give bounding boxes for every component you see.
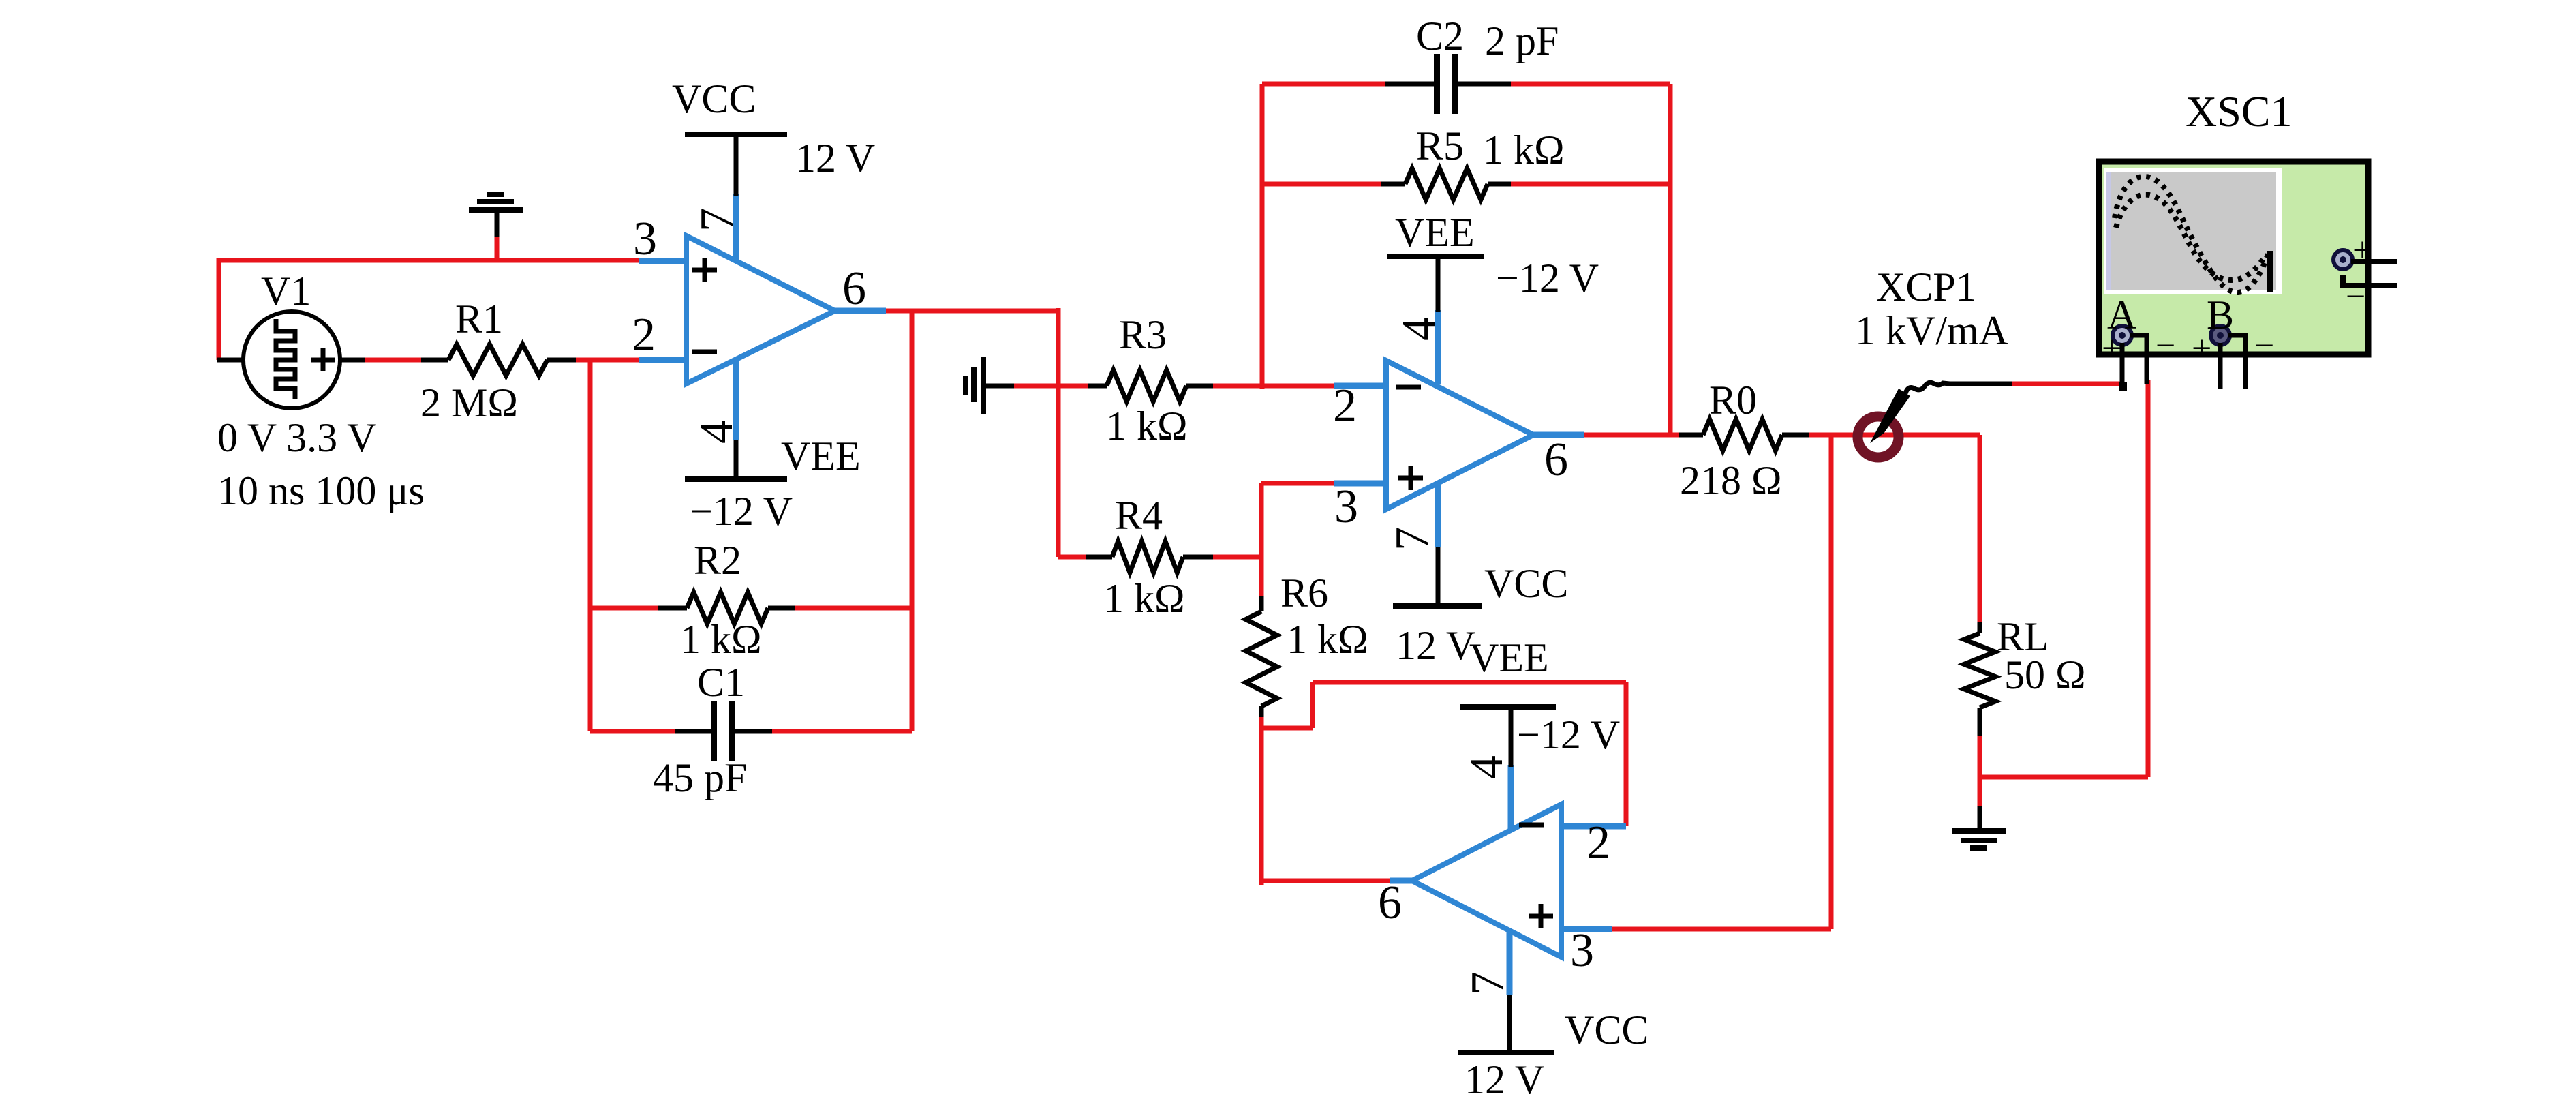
U3 pin 3 label: [1570, 924, 1594, 977]
label R2 value: [680, 617, 762, 662]
svg-text:1 kΩ: 1 kΩ: [1106, 404, 1188, 449]
svg-text:1 kΩ: 1 kΩ: [680, 617, 762, 662]
resistor R2: [658, 592, 795, 624]
U2 pin 6 wire: [1533, 432, 1584, 438]
wire RL top: [1978, 435, 1982, 622]
op-amp U1: [686, 236, 835, 384]
power VCC U2: [1393, 547, 1482, 606]
svg-text:2 pF: 2 pF: [1485, 18, 1559, 63]
U2 pin 6 label: [1544, 434, 1568, 486]
wire R4 to node3: [1213, 555, 1261, 560]
current probe XCP1 clamp: [1858, 382, 1950, 457]
label B minus: [2254, 327, 2274, 365]
svg-text:2: 2: [1333, 380, 1357, 432]
label R0 value: [1680, 458, 1782, 503]
ground GND1 (top left): [469, 194, 523, 260]
label R3 value: [1106, 404, 1188, 449]
op-amp U2: [1386, 361, 1533, 509]
label R1 value: [420, 380, 518, 425]
wire R6 bottom vertical: [1259, 717, 1264, 885]
svg-text:6: 6: [1544, 434, 1568, 486]
svg-text:VCC: VCC: [672, 76, 756, 121]
U1 pin 7 label: [691, 208, 743, 232]
label R1: [455, 297, 503, 342]
wire R0 node down vertical: [1829, 437, 1834, 929]
label VEE U1 value: [690, 489, 793, 534]
label VCC U1 value: [795, 136, 875, 181]
label C1: [697, 660, 745, 705]
label VEE U1: [781, 434, 861, 479]
svg-text:−: −: [2346, 277, 2365, 316]
label VEE U3 value: [1517, 712, 1620, 757]
wire C2R5 left vertical: [1260, 84, 1265, 389]
op-amp U3: [1412, 804, 1561, 957]
svg-text:VCC: VCC: [1484, 561, 1568, 606]
wire net1 left vertical: [217, 258, 221, 360]
label V1 value line1: [217, 415, 376, 460]
label A minus: [2156, 327, 2175, 365]
U2 pin 4 label: [1393, 317, 1445, 341]
wire R5 left: [1262, 182, 1381, 187]
label VCC U1: [672, 76, 756, 121]
wire R3 to U2 pin2: [1213, 384, 1334, 389]
svg-text:−: −: [2254, 327, 2274, 365]
svg-text:0 V 3.3 V: 0 V 3.3 V: [217, 415, 376, 460]
label A plus: [2102, 329, 2121, 368]
label R4 value: [1103, 576, 1185, 621]
wire C2 right: [1511, 82, 1670, 87]
capacitor C2: [1385, 54, 1511, 114]
svg-text:7: 7: [1386, 527, 1439, 551]
resistor R4: [1086, 541, 1213, 573]
svg-text:−12 V: −12 V: [1496, 256, 1599, 301]
U1 pin 6 wire: [835, 308, 886, 314]
label B: [2207, 292, 2234, 337]
label RL: [1997, 614, 2049, 659]
ground GND3 (bottom): [1952, 779, 2006, 848]
wire C1 left: [590, 729, 675, 734]
label C1 value: [653, 755, 747, 800]
svg-text:−: −: [2156, 327, 2175, 365]
U3 pin 7 wire: [1507, 930, 1513, 995]
wire U3 pin3 to R0 node: [1612, 927, 1831, 932]
label R5 value: [1483, 127, 1565, 172]
wire output down to R3 node: [1056, 308, 1061, 557]
U1 pin 2 label: [632, 309, 656, 361]
power VCC U3: [1458, 995, 1554, 1052]
wire R1 to U1 pin2 (node 2): [576, 358, 639, 363]
label trigger minus: [2346, 277, 2365, 316]
wire R0 to RL node: [1809, 433, 1980, 438]
U1 pin 6 label: [842, 262, 866, 315]
U2 pin 3 label: [1334, 481, 1358, 533]
U1 pin 4 label: [690, 420, 743, 444]
label XCP1 value: [1855, 308, 2008, 353]
label R5: [1416, 123, 1464, 168]
svg-text:V1: V1: [261, 269, 311, 314]
svg-text:+: +: [2102, 329, 2121, 368]
svg-text:4: 4: [690, 420, 743, 444]
label RL value: [2004, 652, 2086, 697]
wire fb jog vertical: [1310, 682, 1315, 728]
capacitor C1: [675, 701, 772, 761]
svg-text:45 pF: 45 pF: [653, 755, 747, 800]
wire fb right vertical: [1624, 682, 1629, 826]
svg-text:7: 7: [1462, 971, 1514, 995]
wire C2R5 right vertical: [1668, 84, 1673, 437]
label R2: [694, 538, 741, 583]
svg-text:4: 4: [1460, 755, 1513, 779]
svg-text:VEE: VEE: [1469, 635, 1549, 680]
wire U1 output node: [886, 309, 1058, 314]
svg-text:−12 V: −12 V: [690, 489, 793, 534]
svg-text:+: +: [2192, 329, 2211, 368]
ground GND2 (before R3): [966, 357, 1060, 414]
svg-text:VCC: VCC: [1565, 1007, 1649, 1052]
svg-text:2: 2: [632, 309, 656, 361]
U3 pin 7 label: [1462, 971, 1514, 995]
label C2 value: [1485, 18, 1559, 63]
wire C1 right: [772, 729, 912, 734]
power VEE U1: [685, 440, 787, 479]
U2 pin 4 wire: [1435, 310, 1441, 384]
svg-text:50 Ω: 50 Ω: [2004, 652, 2086, 697]
wire R5 right: [1511, 182, 1670, 187]
svg-text:3: 3: [633, 213, 657, 265]
svg-text:7: 7: [691, 208, 743, 232]
resistor RL: [1964, 622, 1995, 736]
label VEE U2: [1395, 210, 1475, 255]
power VCC U1: [685, 134, 787, 196]
svg-text:218 Ω: 218 Ω: [1680, 458, 1782, 503]
resistor R5: [1381, 168, 1511, 200]
svg-text:R0: R0: [1709, 378, 1757, 423]
label VCC U2: [1484, 561, 1568, 606]
svg-text:R5: R5: [1416, 123, 1464, 168]
svg-text:12 V: 12 V: [795, 136, 875, 181]
XSC1 channel A terminal: [2113, 326, 2147, 384]
U2 pin 3 wire: [1334, 481, 1386, 487]
U3 pin 2 wire: [1561, 823, 1626, 830]
label R6: [1281, 571, 1328, 616]
svg-text:C1: C1: [697, 660, 745, 705]
wire R2 right: [795, 606, 912, 611]
svg-text:−12 V: −12 V: [1517, 712, 1620, 757]
power VEE U3: [1460, 707, 1556, 767]
resistor R6: [1246, 596, 1277, 717]
svg-text:1 kΩ: 1 kΩ: [1103, 576, 1185, 621]
wire node2 vertical to feedback: [588, 360, 593, 731]
svg-text:XSC1: XSC1: [2186, 87, 2293, 136]
label VCC U2 value: [1396, 623, 1475, 668]
XSC1 screen trace B: [2116, 195, 2264, 280]
svg-text:12 V: 12 V: [1396, 623, 1475, 668]
wire fb top horizontal: [1313, 680, 1626, 685]
wire node3 to U2 pin3: [1261, 481, 1334, 486]
U3 pin 3 wire: [1561, 926, 1612, 932]
svg-text:6: 6: [1378, 877, 1402, 929]
U2 pin 7 wire: [1435, 485, 1441, 547]
label XSC1: [2186, 87, 2293, 136]
label trigger plus: [2352, 231, 2372, 270]
U2 pin 2 label: [1333, 380, 1357, 432]
label R4: [1115, 493, 1163, 538]
XSC1 channel B terminal: [2211, 326, 2245, 389]
U2 pin 7 label: [1386, 527, 1439, 551]
wire fb jog horizontal: [1261, 726, 1313, 731]
label R6 value: [1287, 617, 1368, 662]
svg-text:6: 6: [842, 262, 866, 315]
label V1: [261, 269, 311, 314]
XSC1 screen trace A: [2115, 177, 2270, 292]
wire RL node to scope Aminus: [1980, 380, 2148, 777]
wire R2 left: [590, 606, 658, 611]
U3 pin 6 wire: [1390, 878, 1412, 884]
label XCP1: [1876, 264, 1976, 309]
U3 pin 4 label: [1460, 755, 1513, 779]
svg-text:XCP1: XCP1: [1876, 264, 1976, 309]
XSC1 trigger terminal: [2333, 250, 2397, 286]
resistor R0: [1679, 419, 1809, 451]
svg-text:R1: R1: [455, 297, 503, 342]
U1 pin 3 label: [633, 213, 657, 265]
label VEE U2 value: [1496, 256, 1599, 301]
svg-text:2 MΩ: 2 MΩ: [420, 380, 518, 425]
svg-text:C2: C2: [1416, 14, 1464, 59]
label R0: [1709, 378, 1757, 423]
svg-text:VEE: VEE: [781, 434, 861, 479]
U3 pin 4 wire: [1508, 765, 1514, 830]
label V1 value line2: [217, 468, 425, 513]
svg-text:1 kV/mA: 1 kV/mA: [1855, 308, 2008, 353]
label VCC U3 value: [1465, 1057, 1544, 1102]
svg-text:1 kΩ: 1 kΩ: [1483, 127, 1565, 172]
XSC1 screen: [2104, 168, 2282, 294]
wire V1+ to R1: [340, 358, 421, 363]
svg-text:3: 3: [1570, 924, 1594, 977]
resistor R3: [1088, 370, 1213, 401]
label VCC U3: [1565, 1007, 1649, 1052]
svg-text:R4: R4: [1115, 493, 1163, 538]
wire U3 output: [1261, 879, 1390, 883]
pulse voltage source V1: [243, 312, 340, 408]
svg-text:R2: R2: [694, 538, 741, 583]
wire net1 top horizontal (V1- to U1 pin3): [219, 258, 639, 263]
svg-text:4: 4: [1393, 317, 1445, 341]
svg-text:+: +: [2352, 231, 2372, 270]
svg-text:2: 2: [1586, 817, 1610, 869]
power VEE U2: [1387, 256, 1484, 312]
U2 pin 2 wire: [1334, 383, 1386, 389]
U1 pin 2 wire: [639, 357, 686, 363]
svg-text:VEE: VEE: [1395, 210, 1475, 255]
svg-text:R6: R6: [1281, 571, 1328, 616]
U1 pin 4 wire: [733, 359, 739, 440]
wire RL bottom: [1978, 736, 1982, 779]
label VEE U3: [1469, 635, 1549, 680]
wire R4 left lead: [1058, 555, 1086, 560]
wire GND2 node to R3: [1058, 384, 1088, 389]
wire XCP1 to scope A: [1949, 382, 2127, 391]
wire U2 out to R0: [1584, 433, 1679, 438]
resistor R1: [421, 344, 576, 376]
oscilloscope XSC1 body: [2099, 162, 2368, 354]
wire C2 left: [1262, 82, 1385, 87]
U3 pin 6 label: [1378, 877, 1402, 929]
svg-text:R3: R3: [1119, 312, 1167, 357]
U3 pin 2 label: [1586, 817, 1610, 869]
U1 pin 3 wire: [639, 258, 686, 264]
label A: [2107, 292, 2136, 337]
svg-text:1 kΩ: 1 kΩ: [1287, 617, 1368, 662]
svg-text:10 ns 100 μs: 10 ns 100 μs: [217, 468, 425, 513]
label B plus: [2192, 329, 2211, 368]
U1 pin 7 wire: [733, 194, 739, 260]
svg-text:3: 3: [1334, 481, 1358, 533]
wire feedback right vertical: [910, 311, 915, 731]
svg-text:12 V: 12 V: [1465, 1057, 1544, 1102]
wire node3 vertical: [1259, 483, 1264, 596]
label C2: [1416, 14, 1464, 59]
label R3: [1119, 312, 1167, 357]
wire V1 left stub: [217, 358, 244, 363]
